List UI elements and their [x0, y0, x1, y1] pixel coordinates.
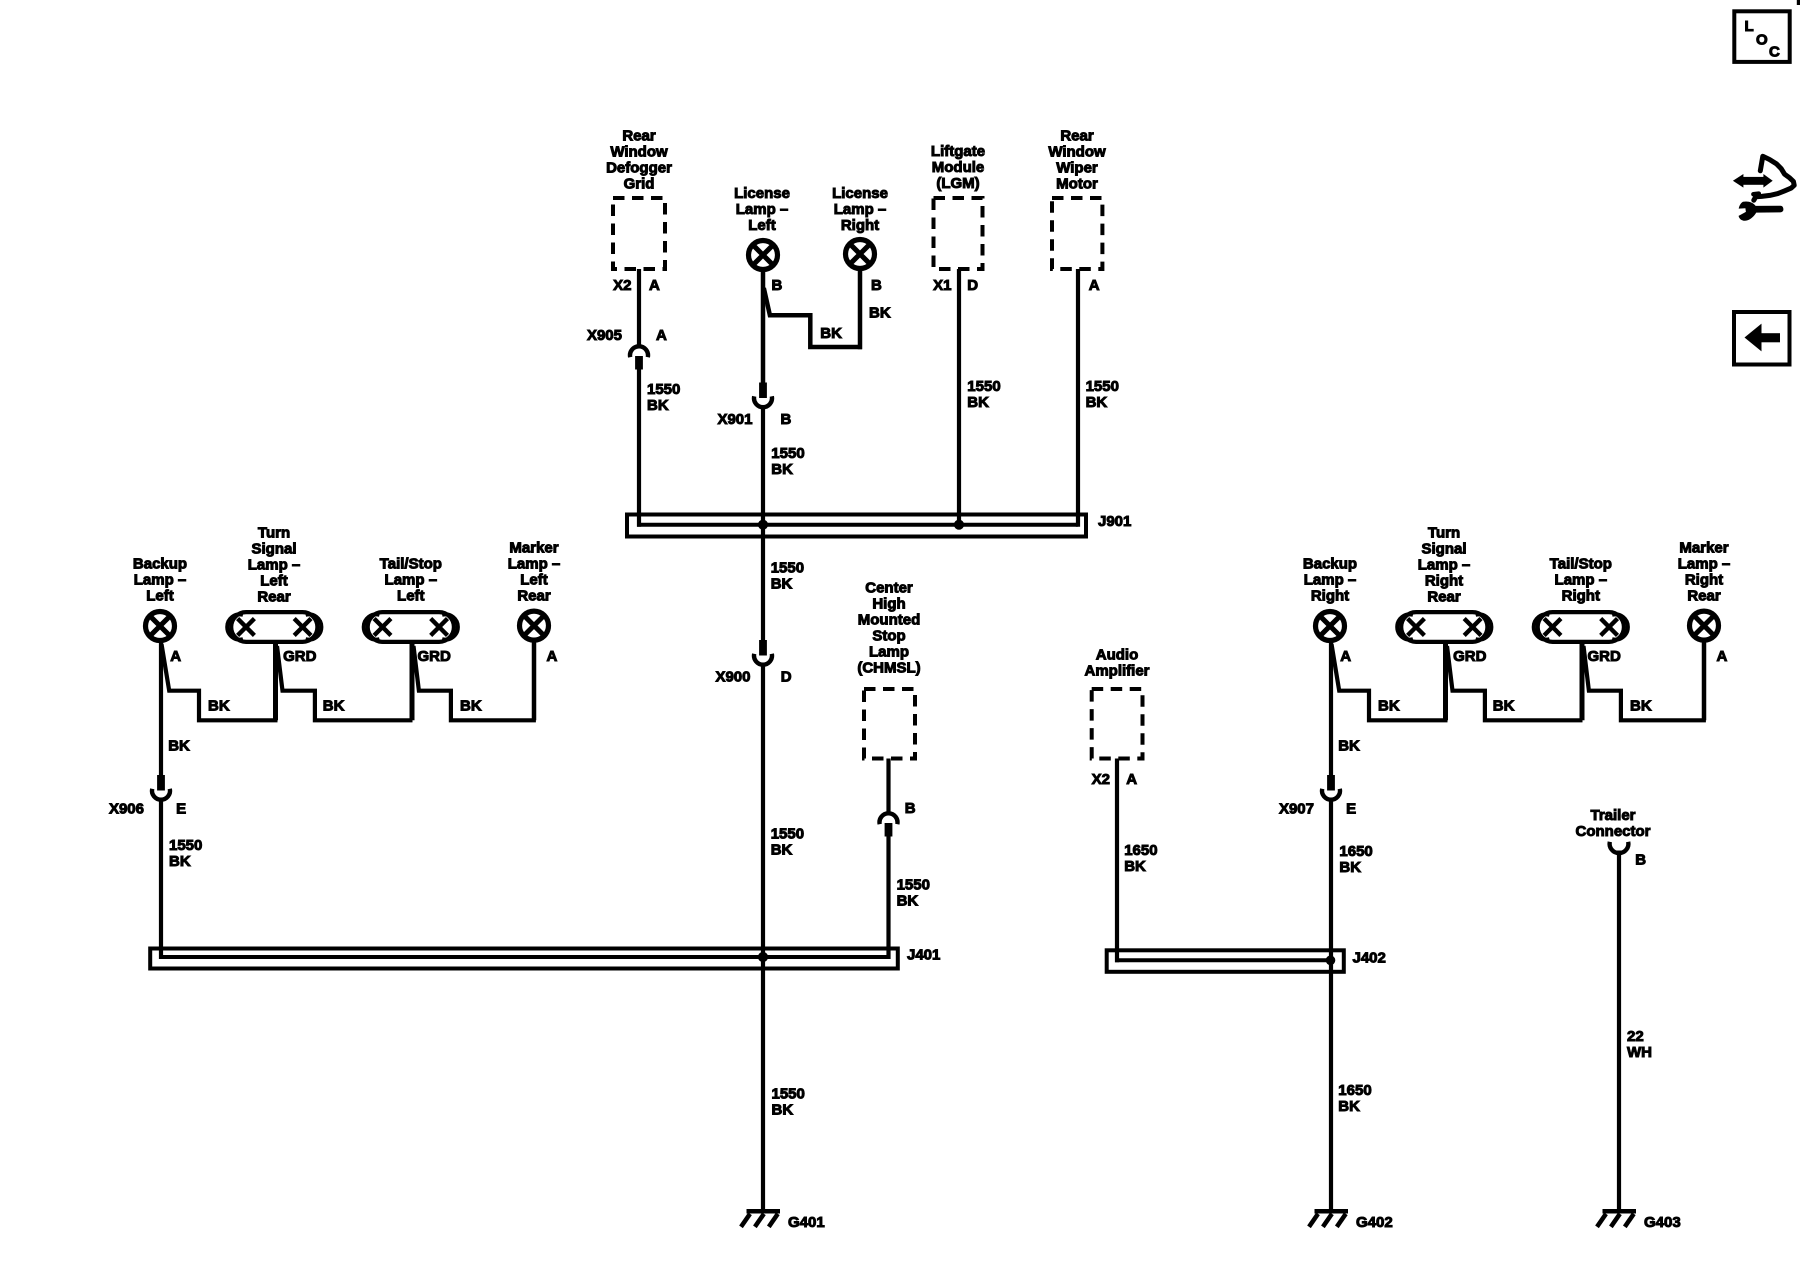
tail/stop lamp right	[1534, 555, 1628, 642]
turn signal lamp right rear	[1397, 525, 1491, 642]
svg-text:Lamp –: Lamp –	[736, 201, 789, 218]
svg-text:WH: WH	[1627, 1044, 1652, 1061]
svg-text:X906: X906	[109, 801, 144, 818]
svg-text:1550: 1550	[169, 837, 202, 854]
wire tail/stop pin	[1580, 643, 1585, 720]
svg-text:GRD: GRD	[418, 648, 452, 665]
svg-text:High: High	[872, 596, 905, 613]
svg-text:Lamp –: Lamp –	[834, 201, 887, 218]
svg-text:X2: X2	[613, 277, 631, 294]
wire BK backup jog	[1332, 644, 1448, 720]
svg-text:X907: X907	[1279, 801, 1314, 818]
wire 1650 BK X907 through J402 to G402	[1331, 800, 1373, 1213]
svg-text:1550: 1550	[647, 381, 680, 398]
svg-text:1650: 1650	[1339, 843, 1372, 860]
svg-text:Lamp –: Lamp –	[1418, 557, 1471, 574]
svg-text:Marker: Marker	[1679, 539, 1728, 556]
svg-text:Rear: Rear	[622, 127, 656, 144]
svg-text:BK: BK	[1338, 738, 1360, 755]
svg-text:1550: 1550	[967, 378, 1000, 395]
svg-text:Left: Left	[397, 587, 425, 604]
marker lamp left rear	[508, 539, 561, 640]
rear window defogger grid (component box)	[606, 127, 672, 269]
svg-text:Left: Left	[146, 587, 174, 604]
svg-text:B: B	[905, 800, 916, 817]
svg-text:Lamp –: Lamp –	[134, 571, 187, 588]
svg-text:BK: BK	[869, 305, 891, 322]
svg-text:A: A	[547, 648, 558, 665]
svg-text:Rear: Rear	[257, 589, 291, 606]
junction dot J401 main	[758, 952, 767, 961]
wire defogger to X905	[637, 269, 641, 346]
ground G403	[1597, 1211, 1681, 1231]
wire BK tail/stop jog	[1584, 646, 1706, 720]
svg-text:Lamp –: Lamp –	[1304, 571, 1357, 588]
license lamp right	[832, 185, 888, 269]
connector X906	[109, 776, 186, 818]
wire 1550 BK X901 through J901	[763, 409, 805, 643]
svg-text:J402: J402	[1353, 950, 1386, 967]
svg-text:Connector: Connector	[1576, 823, 1651, 840]
wire 1550 BK wiper to J901	[1078, 269, 1119, 527]
wire marker pin	[532, 641, 537, 720]
pin B license right	[871, 277, 882, 294]
svg-text:1650: 1650	[1338, 1082, 1371, 1099]
svg-text:1650: 1650	[1124, 842, 1157, 859]
pin X2-A defogger	[613, 277, 660, 294]
svg-text:Rear: Rear	[1687, 587, 1721, 604]
marker lamp right rear	[1678, 539, 1731, 640]
svg-text:BK: BK	[1124, 858, 1146, 875]
svg-text:1550: 1550	[771, 826, 804, 843]
wire license right jog BK	[764, 269, 891, 349]
svg-text:Tail/Stop: Tail/Stop	[380, 555, 442, 572]
svg-text:Lamp –: Lamp –	[1678, 555, 1731, 572]
page corner mark	[1797, 0, 1800, 5]
svg-text:BK: BK	[771, 461, 793, 478]
pin A backup	[1340, 648, 1351, 665]
svg-text:Tail/Stop: Tail/Stop	[1550, 555, 1612, 572]
svg-text:1550: 1550	[1086, 378, 1119, 395]
wire 1650 BK audio to J402	[1117, 759, 1158, 963]
ground G401	[741, 1211, 825, 1231]
svg-text:BK: BK	[460, 698, 482, 715]
svg-text:GRD: GRD	[283, 648, 317, 665]
svg-text:Right: Right	[1425, 573, 1463, 590]
svg-text:BK: BK	[771, 842, 793, 859]
wire 1550 BK J901 to X900	[771, 559, 804, 592]
svg-text:(CHMSL): (CHMSL)	[857, 660, 920, 677]
splice pack J401	[150, 947, 940, 969]
svg-text:BK: BK	[897, 892, 919, 909]
svg-text:Signal: Signal	[1421, 541, 1466, 558]
svg-text:X905: X905	[587, 327, 622, 344]
svg-text:Lamp –: Lamp –	[1555, 571, 1608, 588]
wire 1550 BK X905 to J901	[639, 368, 680, 527]
svg-text:22: 22	[1627, 1028, 1644, 1045]
svg-text:BK: BK	[1339, 859, 1361, 876]
svg-text:G403: G403	[1644, 1214, 1681, 1231]
pin GRD tail/stop	[1588, 648, 1622, 665]
svg-text:Amplifier: Amplifier	[1084, 663, 1149, 680]
connector CHMSL inline	[880, 813, 898, 836]
svg-text:G402: G402	[1356, 1214, 1393, 1231]
svg-text:C: C	[1769, 44, 1780, 61]
svg-text:1550: 1550	[771, 559, 804, 576]
connector X907	[1279, 776, 1356, 818]
svg-text:Marker: Marker	[509, 539, 558, 556]
svg-text:Right: Right	[1311, 587, 1349, 604]
pin GRD turn signal	[283, 648, 317, 665]
svg-text:X1: X1	[933, 277, 951, 294]
svg-text:E: E	[1346, 801, 1356, 818]
svg-text:GRD: GRD	[1588, 648, 1622, 665]
svg-text:Wiper: Wiper	[1056, 159, 1098, 176]
svg-text:A: A	[1126, 771, 1137, 788]
svg-text:O: O	[1756, 32, 1768, 49]
svg-text:BK: BK	[820, 325, 842, 342]
wire 1550 BK LGM to J901	[959, 269, 1001, 525]
turn signal lamp left rear	[227, 525, 321, 642]
svg-text:Grid: Grid	[624, 175, 655, 192]
svg-text:BK: BK	[1630, 698, 1652, 715]
svg-text:Left: Left	[748, 217, 776, 234]
svg-text:A: A	[1089, 277, 1100, 294]
wire turn signal pin	[273, 643, 278, 720]
svg-text:BK: BK	[1086, 394, 1108, 411]
wire 1650 BK J402 to G402 label	[1338, 1082, 1371, 1115]
svg-text:Motor: Motor	[1056, 175, 1098, 192]
svg-text:Center: Center	[865, 580, 913, 597]
svg-text:Left: Left	[260, 573, 288, 590]
svg-text:BK: BK	[1338, 1098, 1360, 1115]
pin X2-A audio amplifier	[1092, 771, 1138, 788]
loc box icon	[1734, 11, 1789, 62]
svg-text:X900: X900	[715, 669, 750, 686]
svg-text:Right: Right	[841, 217, 879, 234]
svg-text:(LGM): (LGM)	[936, 175, 979, 192]
wire turn signal pin	[1443, 643, 1448, 720]
svg-text:B: B	[781, 411, 792, 428]
svg-text:BK: BK	[771, 576, 793, 593]
svg-text:1550: 1550	[897, 876, 930, 893]
svg-text:License: License	[734, 185, 790, 202]
svg-text:1550: 1550	[771, 445, 804, 462]
connector X900	[715, 641, 791, 686]
svg-text:Signal: Signal	[251, 541, 296, 558]
pin B license left	[772, 277, 783, 294]
pin A marker	[1717, 648, 1728, 665]
svg-text:Left: Left	[520, 571, 548, 588]
svg-text:Trailer: Trailer	[1590, 807, 1635, 824]
svg-text:A: A	[649, 277, 660, 294]
svg-text:L: L	[1745, 18, 1754, 35]
wire BK tail/stop jog	[414, 646, 536, 720]
ground G402	[1309, 1211, 1393, 1231]
wire license left to X901	[761, 270, 766, 384]
svg-text:G401: G401	[788, 1214, 825, 1231]
pin GRD tail/stop	[418, 648, 452, 665]
svg-text:X901: X901	[717, 411, 752, 428]
service icon (arrows and wrench)	[1733, 156, 1794, 220]
svg-text:License: License	[832, 185, 888, 202]
junction dot J901 main	[758, 520, 767, 529]
svg-text:A: A	[1717, 648, 1728, 665]
wire backup lamp to X907	[1331, 641, 1360, 777]
svg-text:D: D	[967, 277, 978, 294]
backup lamp right	[1303, 555, 1357, 640]
junction dot J901 liftgate	[954, 520, 963, 529]
trailer connector	[1576, 807, 1651, 869]
svg-text:Rear: Rear	[517, 587, 551, 604]
svg-text:GRD: GRD	[1453, 648, 1487, 665]
svg-text:Defogger: Defogger	[606, 159, 672, 176]
svg-text:B: B	[1635, 852, 1646, 869]
svg-text:BK: BK	[323, 698, 345, 715]
wire tail/stop pin	[410, 643, 415, 720]
connector X905	[587, 327, 667, 369]
svg-text:X2: X2	[1092, 771, 1110, 788]
wire BK turn signal jog	[277, 646, 413, 720]
wire 22 WH trailer to G403	[1619, 851, 1652, 1213]
wire BK backup jog	[162, 644, 278, 720]
license lamp left	[734, 185, 790, 270]
pin A backup	[170, 648, 181, 665]
svg-text:Lamp –: Lamp –	[508, 555, 561, 572]
svg-text:B: B	[871, 277, 882, 294]
svg-text:Stop: Stop	[872, 628, 905, 645]
svg-text:Liftgate: Liftgate	[931, 143, 985, 160]
svg-text:J401: J401	[907, 947, 940, 964]
svg-text:B: B	[772, 277, 783, 294]
svg-text:Rear: Rear	[1060, 127, 1094, 144]
svg-text:BK: BK	[647, 397, 669, 414]
svg-text:Turn: Turn	[258, 525, 290, 542]
svg-text:BK: BK	[208, 698, 230, 715]
wire backup lamp to X906	[161, 641, 190, 777]
svg-text:E: E	[176, 801, 186, 818]
pin X1-D liftgate	[933, 277, 978, 294]
svg-text:A: A	[170, 648, 181, 665]
center high mounted stop lamp CHMSL (component box)	[857, 580, 920, 759]
connector X901	[717, 383, 791, 428]
svg-text:Right: Right	[1685, 571, 1723, 588]
svg-text:A: A	[1340, 648, 1351, 665]
wire BK turn signal jog	[1447, 646, 1583, 720]
svg-text:J901: J901	[1098, 513, 1131, 530]
svg-text:Window: Window	[1048, 143, 1106, 160]
svg-text:Audio: Audio	[1096, 647, 1139, 664]
svg-text:BK: BK	[169, 853, 191, 870]
svg-text:Module: Module	[932, 159, 985, 176]
splice pack J402	[1107, 950, 1386, 972]
svg-text:Window: Window	[610, 143, 668, 160]
svg-text:BK: BK	[1493, 698, 1515, 715]
svg-text:BK: BK	[1378, 698, 1400, 715]
svg-text:Right: Right	[1562, 587, 1600, 604]
backup lamp left	[133, 555, 187, 640]
svg-text:D: D	[781, 669, 792, 686]
rear window wiper motor (component box)	[1048, 127, 1106, 269]
wire marker pin	[1702, 641, 1707, 720]
wire 1550 BK X900 to J401	[763, 665, 804, 1212]
audio amplifier (component box)	[1084, 647, 1149, 759]
svg-text:Lamp: Lamp	[869, 644, 909, 661]
svg-text:BK: BK	[168, 738, 190, 755]
pin A marker	[547, 648, 558, 665]
svg-text:Turn: Turn	[1428, 525, 1460, 542]
svg-text:Backup: Backup	[1303, 555, 1357, 572]
svg-text:A: A	[656, 327, 667, 344]
pin A wiper motor	[1089, 277, 1100, 294]
wire 1550 BK X906 to J401	[161, 800, 202, 960]
back arrow icon box	[1734, 312, 1790, 365]
svg-text:Mounted: Mounted	[858, 612, 920, 629]
wire CHMSL pin B	[889, 759, 916, 818]
svg-text:BK: BK	[772, 1101, 794, 1118]
svg-text:1550: 1550	[772, 1085, 805, 1102]
tail/stop lamp left	[364, 555, 458, 642]
svg-text:Lamp –: Lamp –	[385, 571, 438, 588]
svg-text:Rear: Rear	[1427, 589, 1461, 606]
wire 1550 BK J401 to G401 label	[772, 1085, 805, 1118]
splice pack J901	[627, 513, 1131, 537]
junction dot J402	[1326, 956, 1335, 965]
pin GRD turn signal	[1453, 648, 1487, 665]
svg-text:BK: BK	[967, 394, 989, 411]
svg-text:Lamp –: Lamp –	[248, 557, 301, 574]
wire 1550 BK CHMSL to J401	[889, 836, 930, 960]
svg-text:Backup: Backup	[133, 555, 187, 572]
liftgate module LGM (component box)	[931, 143, 985, 269]
